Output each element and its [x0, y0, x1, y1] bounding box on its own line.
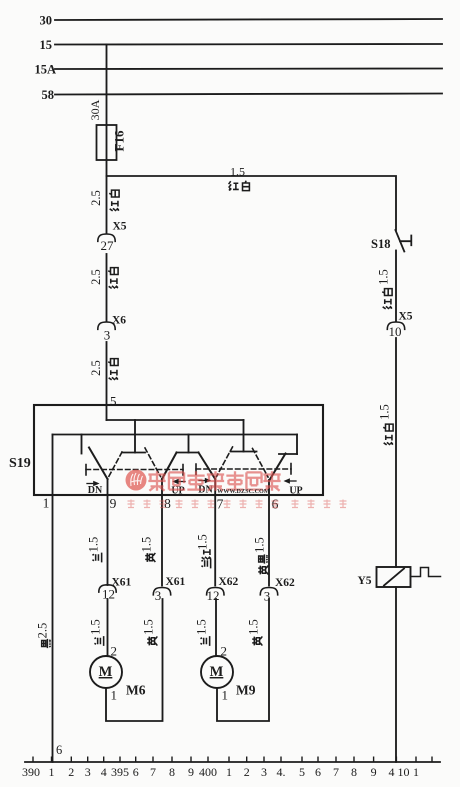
wire Y5 to ground strip: [395, 587, 397, 762]
wire X5-10 to relay Y5: [395, 338, 397, 567]
motor M6 bottom loop to X61-3 wire: [106, 599, 163, 721]
wire terminal 6 to X62-3: [268, 480, 270, 586]
svg-text:58: 58: [42, 88, 55, 102]
svg-text:3: 3: [85, 765, 91, 779]
ground drop to bar 2-3: [188, 435, 190, 453]
bus 15: [55, 43, 442, 46]
svg-text:1.5: 1.5: [87, 537, 101, 553]
svg-text:6: 6: [56, 743, 62, 757]
supply drop to bar 1-2: [134, 420, 136, 453]
connector X62 pin 3: [260, 588, 277, 595]
svg-text:M9: M9: [236, 683, 256, 698]
svg-text:1: 1: [222, 688, 229, 703]
watermark logo circle: [126, 470, 147, 491]
svg-text:3: 3: [155, 588, 162, 603]
svg-text:5: 5: [110, 394, 117, 409]
wire terminal 9 to X61-12: [107, 479, 109, 585]
mechanical link rocker 1-2: [86, 469, 183, 471]
svg-text:DN: DN: [88, 485, 103, 496]
svg-text:3: 3: [261, 765, 267, 779]
svg-text:10: 10: [389, 324, 402, 339]
contact bar pair 2-3: [177, 452, 199, 454]
connector X5 pin 10: [387, 322, 404, 329]
svg-text:X5: X5: [399, 311, 413, 323]
svg-text:15: 15: [40, 38, 53, 52]
svg-text:7: 7: [150, 765, 156, 779]
arrowhead UP 4: [284, 478, 290, 483]
svg-text:390: 390: [22, 765, 40, 779]
connector X61 pin 12: [99, 585, 116, 592]
wire S18 to connector X5-10: [395, 251, 397, 322]
switch block S19 box: [34, 405, 323, 495]
svg-text:1.5: 1.5: [140, 537, 154, 553]
ground post switch 1: [81, 435, 83, 454]
svg-text:2.5: 2.5: [89, 190, 103, 206]
svg-text:9: 9: [188, 765, 194, 779]
switch blade 4 UP solid arm: [270, 454, 286, 481]
switch blade 2 dashed arm: [145, 448, 161, 477]
contact bar pair 1-2: [122, 452, 145, 454]
svg-text:S19: S19: [9, 456, 31, 471]
wire X61-12 to motor M6: [107, 599, 108, 656]
connector X62 pin 12: [207, 588, 224, 595]
switch S18: [395, 230, 411, 252]
svg-text:4: 4: [101, 765, 107, 779]
yellow-black chars terminal 6 wire: [259, 554, 268, 563]
svg-text:1.5: 1.5: [377, 269, 391, 285]
svg-text:30: 30: [40, 14, 53, 28]
supply drop to bar 3-4: [243, 420, 245, 452]
blue char terminal 9 wire: [92, 553, 101, 563]
svg-text:1.5: 1.5: [89, 619, 103, 635]
svg-text:3: 3: [264, 589, 271, 604]
arrow UP switch 2: [176, 481, 185, 483]
svg-text:8: 8: [169, 765, 175, 779]
black char ground wire: [42, 639, 51, 648]
svg-text:2: 2: [111, 644, 118, 659]
svg-text:9: 9: [110, 496, 117, 511]
relay Y5 pulse symbol: [411, 568, 441, 577]
svg-text:9: 9: [371, 765, 377, 779]
bus 58: [55, 94, 442, 95]
red-white chars segment B: [108, 268, 118, 275]
red-white chars right upper: [382, 289, 392, 296]
svg-text:12: 12: [102, 587, 115, 602]
blue-red chars terminal 7 wire: [202, 549, 211, 559]
motor M6: [90, 656, 122, 688]
svg-text:1: 1: [49, 765, 55, 779]
svg-text:X62: X62: [275, 577, 295, 589]
switch blade 1 dashed arm: [109, 452, 123, 477]
switch blade 4 dashed arm: [253, 449, 269, 478]
svg-text:1.5: 1.5: [378, 404, 392, 420]
svg-text:2: 2: [221, 644, 228, 659]
svg-text:8: 8: [351, 765, 357, 779]
svg-text:1.5: 1.5: [195, 619, 209, 635]
svg-text:1.5: 1.5: [142, 619, 156, 635]
bus 30: [55, 19, 442, 20]
svg-text:UP: UP: [171, 486, 184, 497]
arrow DN switch 1: [87, 483, 95, 485]
arrow DN switch 3: [199, 480, 207, 482]
blue char below X61-12: [94, 636, 103, 646]
red-white chars segment A: [109, 190, 119, 197]
svg-text:M: M: [210, 664, 224, 680]
motor M9 bottom loop to X62-3 wire: [217, 599, 269, 721]
switch blade 3 dashed arm: [217, 447, 233, 477]
svg-text:X5: X5: [113, 221, 127, 233]
supply rail from pin 5: [107, 419, 244, 421]
svg-text:4.: 4.: [277, 765, 286, 779]
switch blade 3 DN solid arm: [199, 453, 216, 480]
svg-text:7: 7: [217, 497, 224, 512]
ground strip ticks: [33, 757, 432, 763]
svg-text:30A: 30A: [88, 99, 102, 120]
wire terminal 1 to ground strip: [52, 435, 54, 763]
wire X5-27 to X6-3: [106, 254, 108, 322]
svg-text:7: 7: [333, 765, 339, 779]
connector X5 pin 27: [98, 234, 115, 241]
fuse F16: [97, 125, 117, 160]
red-white chars segment C: [108, 359, 118, 366]
relay Y5: [377, 567, 411, 587]
svg-text:2.5: 2.5: [89, 360, 103, 376]
svg-text:2: 2: [244, 765, 250, 779]
svg-text:1: 1: [413, 765, 419, 779]
ground drop to bar 4: [296, 435, 298, 455]
svg-text:1: 1: [111, 688, 118, 703]
yellow char below X62-3: [252, 636, 262, 645]
svg-text:2: 2: [68, 765, 74, 779]
svg-text:X61: X61: [166, 576, 186, 588]
svg-text:5: 5: [299, 765, 305, 779]
contact bar pair 3-4: [231, 451, 257, 453]
svg-text:M: M: [99, 664, 113, 680]
connector X61 pin 3: [153, 588, 170, 595]
svg-text:1: 1: [43, 496, 50, 511]
svg-text:UP: UP: [289, 486, 302, 497]
svg-text:10: 10: [398, 765, 410, 779]
wire X62-12 to motor M9: [215, 599, 217, 656]
svg-text:X62: X62: [219, 576, 239, 588]
svg-text:M6: M6: [126, 683, 146, 698]
svg-text:X6: X6: [112, 315, 126, 327]
svg-text:12: 12: [207, 588, 220, 603]
svg-text:F16: F16: [112, 130, 127, 151]
svg-text:27: 27: [101, 238, 115, 253]
wire branch to S18: [107, 176, 397, 230]
svg-text:395: 395: [111, 765, 129, 779]
watermark small row: [128, 500, 347, 508]
arrowhead UP 2: [172, 479, 178, 484]
svg-text:15A: 15A: [34, 63, 56, 77]
svg-text:3: 3: [104, 328, 111, 343]
blue char below X62-12: [200, 636, 209, 646]
yellow char below X61-3: [147, 636, 157, 645]
wire terminal 7 to X62-12: [214, 479, 216, 586]
svg-text:1.5: 1.5: [247, 619, 261, 635]
red-white chars right lower: [383, 424, 393, 431]
wire bus15 to fuse: [106, 45, 108, 126]
yellow char terminal 8 wire: [145, 553, 155, 562]
svg-text:4: 4: [389, 765, 395, 779]
switch blade 1 DN solid arm: [89, 448, 108, 480]
arrowhead DN 3: [205, 478, 211, 483]
connector X6 pin 3: [98, 322, 115, 329]
svg-text:400: 400: [199, 765, 217, 779]
S19 pin5 wire inside: [106, 405, 108, 420]
svg-text:6: 6: [315, 765, 321, 779]
label red-white branch chars: [229, 181, 239, 190]
mechanical link rocker 3-4: [196, 468, 291, 470]
ground rail from terminal 1: [53, 434, 298, 436]
svg-text:Y5: Y5: [358, 575, 372, 587]
watermark text big: [148, 471, 280, 490]
svg-text:2.5: 2.5: [36, 623, 50, 639]
bus 15A: [55, 68, 442, 71]
svg-text:1.5: 1.5: [196, 534, 210, 550]
svg-text:6: 6: [133, 765, 139, 779]
ground terminal strip: [25, 761, 440, 763]
arrow UP switch 4: [288, 480, 297, 482]
switch blade 2 UP solid arm: [162, 453, 177, 480]
motor M9: [201, 656, 233, 688]
contact bar switch 4: [279, 453, 297, 455]
svg-text:1.5: 1.5: [230, 165, 245, 179]
wire fuse to connector X5-27: [106, 160, 108, 233]
svg-text:1: 1: [226, 765, 232, 779]
svg-text:S18: S18: [371, 237, 390, 251]
arrowhead DN 1: [93, 481, 99, 486]
svg-text:WWW.DZSC.COM: WWW.DZSC.COM: [217, 488, 270, 495]
wire terminal 8 to X61-3: [161, 479, 163, 586]
wire X6-3 to S19 pin 5: [106, 342, 108, 405]
svg-text:2.5: 2.5: [89, 269, 103, 285]
svg-text:1.5: 1.5: [253, 537, 267, 553]
